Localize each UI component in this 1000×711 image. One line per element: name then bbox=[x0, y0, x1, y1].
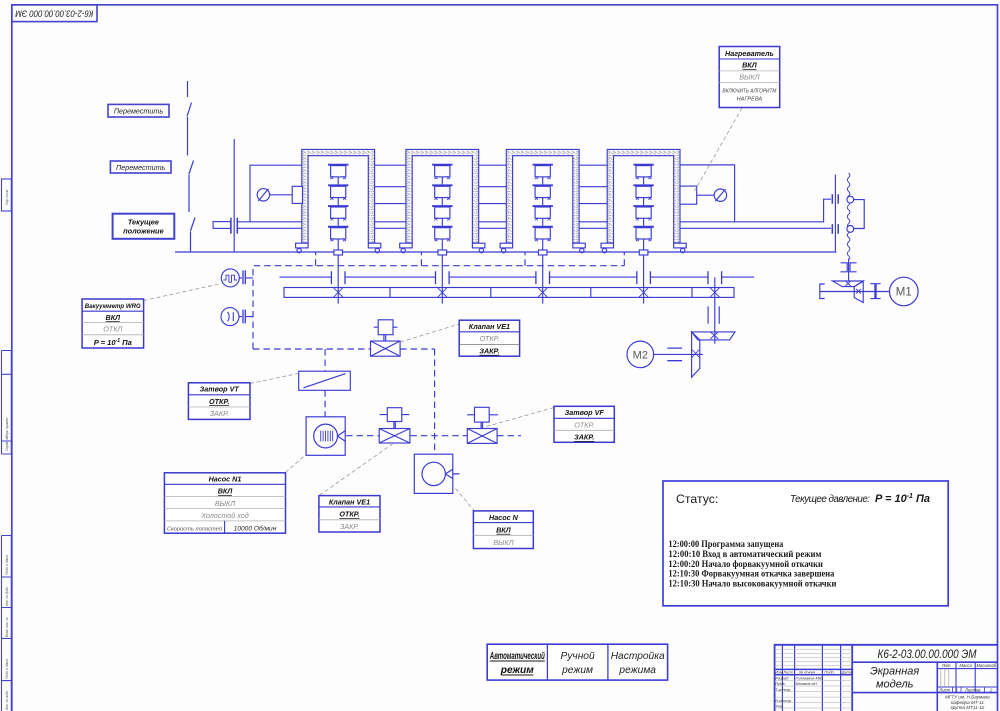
svg-text:Переместить: Переместить bbox=[116, 163, 166, 172]
svg-text:ВЫКЛ: ВЫКЛ bbox=[493, 538, 513, 547]
turbo pump N1 bbox=[306, 417, 345, 456]
contact switch chain bbox=[187, 81, 195, 252]
svg-text:ОТКР.: ОТКР. bbox=[339, 510, 359, 519]
flanged pipe header line bbox=[280, 276, 755, 278]
svg-text:Инв. № подл.: Инв. № подл. bbox=[5, 690, 9, 710]
svg-text:М2: М2 bbox=[633, 350, 648, 362]
svg-text:ОТКР.: ОТКР. bbox=[479, 334, 499, 343]
right lower flange bars bbox=[832, 224, 838, 234]
drive shaft to M1 bbox=[848, 259, 850, 282]
feedthrough bracket bbox=[854, 200, 864, 229]
svg-text:ОТКР.: ОТКР. bbox=[574, 420, 594, 429]
svg-text:Масштаб: Масштаб bbox=[977, 663, 997, 668]
valve VE1 lower bbox=[379, 408, 410, 443]
svg-text:ВКЛ: ВКЛ bbox=[496, 525, 512, 534]
branch VT to turbo pump bbox=[324, 390, 326, 417]
title block bbox=[775, 645, 998, 711]
furnace chamber 2 bbox=[400, 149, 485, 252]
svg-text:Клапан VE1: Клапан VE1 bbox=[469, 322, 510, 331]
label box Переместить 2 bbox=[110, 161, 171, 173]
M2 drive shaft bbox=[654, 353, 703, 355]
foreline turbo to VE1 valve bbox=[346, 435, 379, 437]
svg-text:12:00:10 Вход в автоматический: 12:00:10 Вход в автоматический режим bbox=[668, 549, 821, 559]
mid rail segments lower bbox=[375, 203, 608, 205]
line valve VE1 to junction bbox=[400, 348, 435, 350]
manifold duct rectangle bbox=[284, 288, 734, 298]
stem connector box 3 bbox=[538, 250, 547, 255]
svg-text:Текущее давление:: Текущее давление: bbox=[790, 494, 870, 505]
info table Нагреватель bbox=[719, 47, 780, 108]
svg-text:М1: М1 bbox=[896, 287, 912, 299]
chamber stem 1 bbox=[337, 239, 339, 304]
furnace chamber 1 bbox=[296, 149, 381, 252]
svg-text:ВКЛ: ВКЛ bbox=[106, 313, 122, 322]
svg-text:Разраб.: Разраб. bbox=[775, 676, 789, 681]
left shaft flange bars bbox=[231, 218, 237, 234]
pin circle lower bbox=[847, 226, 854, 233]
svg-text:12:00:00 Программа запущена: 12:00:00 Программа запущена bbox=[668, 539, 783, 549]
svg-text:Статус:: Статус: bbox=[676, 492, 718, 506]
worm gear M2 horizontal trapezoid bbox=[692, 332, 735, 340]
valve VE1 upper bbox=[371, 320, 401, 356]
svg-text:ЗАКР.: ЗАКР. bbox=[479, 347, 499, 356]
svg-text:режима: режима bbox=[618, 665, 656, 676]
svg-text:Пров.: Пров. bbox=[775, 681, 785, 686]
leader lines to labels bbox=[144, 108, 742, 511]
right port box bbox=[680, 186, 697, 204]
svg-text:Экранная: Экранная bbox=[870, 665, 919, 677]
svg-text:Масса: Масса bbox=[959, 663, 972, 668]
pin circle upper bbox=[847, 196, 854, 203]
branch to gate valve VT bbox=[324, 349, 326, 371]
duct valve X marks bbox=[334, 288, 720, 297]
svg-text:ВЫКЛ: ВЫКЛ bbox=[739, 72, 759, 81]
svg-text:Вакуумметр WRG: Вакуумметр WRG bbox=[85, 303, 142, 310]
svg-text:модель: модель bbox=[876, 679, 914, 691]
svg-text:ВКЛЮЧИТЬ АЛГОРИТМ: ВКЛЮЧИТЬ АЛГОРИТМ bbox=[722, 89, 776, 95]
svg-text:К6-2-03.00.00.000 ЭМ: К6-2-03.00.00.000 ЭМ bbox=[878, 649, 977, 661]
svg-text:Беляков АН: Беляков АН bbox=[796, 681, 818, 686]
svg-text:Подп. и дата: Подп. и дата bbox=[5, 555, 9, 575]
furnace chamber 3 bbox=[500, 149, 585, 252]
svg-text:1: 1 bbox=[990, 687, 992, 692]
shaft upper line bbox=[237, 199, 831, 222]
svg-text:ВЫКЛ: ВЫКЛ bbox=[215, 499, 235, 508]
info table Затвор VF bbox=[554, 406, 614, 442]
svg-text:Справ. №: Справ. № bbox=[5, 436, 9, 451]
svg-text:Текущее: Текущее bbox=[128, 218, 159, 227]
svg-text:Листов: Листов bbox=[964, 687, 981, 692]
chamber stem 4 bbox=[643, 239, 645, 304]
info table Клапан VE1 upper bbox=[459, 320, 519, 356]
svg-text:Инв. № дубл.: Инв. № дубл. bbox=[5, 586, 9, 606]
svg-text:К6-2-03.00.00.000 ЭМ: К6-2-03.00.00.000 ЭМ bbox=[15, 8, 93, 19]
stem connector box 1 bbox=[334, 250, 343, 255]
pipe flange ticks bbox=[331, 271, 721, 284]
svg-text:Перв. примен.: Перв. примен. bbox=[5, 417, 9, 438]
worm gear M2 vertical trapezoid bbox=[692, 332, 700, 377]
right upper flange bars bbox=[832, 194, 838, 204]
junction down to scroll pump bbox=[434, 349, 436, 454]
svg-text:Лит.: Лит. bbox=[941, 663, 952, 668]
svg-text:НАГРЕВА: НАГРЕВА bbox=[737, 97, 763, 103]
foreline VE1 valve to VF valve bbox=[410, 435, 467, 437]
svg-text:Лист: Лист bbox=[938, 687, 950, 692]
svg-text:12:10:30 Начало высоковакуумно: 12:10:30 Начало высоковакуумной откачки bbox=[668, 579, 837, 589]
svg-text:Клапан VE1: Клапан VE1 bbox=[329, 497, 370, 506]
svg-text:ЗАКР.: ЗАКР. bbox=[574, 433, 594, 442]
left support column bbox=[233, 139, 235, 252]
svg-text:режим: режим bbox=[500, 665, 534, 676]
info table Затвор VT bbox=[188, 383, 250, 420]
stem connector box 4 bbox=[639, 250, 648, 255]
M1 motor shaft bbox=[820, 291, 890, 293]
svg-text:Лист: Лист bbox=[782, 670, 794, 675]
info table Насос N1 bbox=[164, 473, 285, 533]
svg-text:ОТКЛ: ОТКЛ bbox=[103, 325, 122, 334]
svg-text:Спр. точн.: Спр. точн. bbox=[5, 189, 9, 205]
label box Текущее положение bbox=[113, 214, 175, 239]
svg-text:положение: положение bbox=[123, 227, 164, 236]
chamber stem 2 bbox=[441, 239, 443, 304]
mode selector table bbox=[487, 644, 667, 680]
svg-text:Изм: Изм bbox=[775, 670, 783, 675]
M1 shaft flange left bbox=[820, 284, 825, 299]
svg-text:12:00:20 Начало форвакуумной о: 12:00:20 Начало форвакуумной откачки bbox=[668, 559, 823, 569]
stem connector box 2 bbox=[438, 250, 447, 255]
svg-text:Автоматический: Автоматический bbox=[489, 651, 545, 662]
svg-text:Затвор VF: Затвор VF bbox=[565, 408, 605, 417]
motor M2 bbox=[627, 341, 654, 368]
svg-text:ЗАКР.: ЗАКР. bbox=[210, 409, 229, 418]
left port box bbox=[292, 186, 302, 203]
svg-text:Затвор VT: Затвор VT bbox=[200, 385, 240, 394]
top rail segments bbox=[375, 164, 735, 166]
left margin attribute boxes bbox=[2, 179, 12, 711]
svg-text:Дата: Дата bbox=[841, 670, 853, 675]
label box Переместить 1 bbox=[108, 104, 169, 117]
left diameter symbol bbox=[257, 189, 269, 201]
svg-text:ОТКР.: ОТКР. bbox=[209, 397, 229, 406]
svg-text:Утв.: Утв. bbox=[775, 703, 784, 708]
svg-text:1: 1 bbox=[956, 687, 958, 692]
svg-text:10000 Об/мин: 10000 Об/мин bbox=[234, 524, 277, 532]
svg-text:Насос N: Насос N bbox=[489, 513, 519, 522]
svg-text:Взам. инв. №: Взам. инв. № bbox=[5, 617, 9, 637]
roughing stem sleeve bars bbox=[708, 306, 719, 323]
status panel bbox=[663, 481, 948, 606]
underline marks for active states bbox=[106, 69, 757, 675]
top-left rotated stamp box bbox=[12, 5, 97, 22]
svg-text:Н.контр.: Н.контр. bbox=[775, 698, 791, 703]
roughing stem to M2 worm bbox=[714, 277, 716, 344]
vacuum gauge WRG bbox=[221, 269, 253, 287]
right enclosure outline bbox=[680, 165, 735, 222]
info table Насос N2 bbox=[473, 511, 533, 549]
svg-text:ВКЛ: ВКЛ bbox=[742, 61, 758, 70]
svg-text:Нагреватель: Нагреватель bbox=[725, 49, 774, 58]
chamber stem 3 bbox=[542, 239, 544, 304]
svg-text:Голованов МЮ: Голованов МЮ bbox=[796, 676, 823, 681]
worm gear M1 horizontal trapezoid bbox=[833, 281, 864, 287]
M1 shaft flange pair bbox=[870, 284, 880, 299]
bellows zigzag line bbox=[847, 173, 850, 259]
furnace chamber 4 bbox=[601, 149, 686, 252]
svg-text:Холостой ход: Холостой ход bbox=[200, 511, 249, 520]
scroll pump N2 bbox=[414, 454, 459, 493]
gate valve VT bbox=[299, 371, 351, 390]
valve VF bbox=[467, 407, 498, 443]
left enclosure outline bbox=[250, 165, 302, 221]
svg-text:Насос N1: Насос N1 bbox=[209, 474, 242, 483]
svg-text:режим: режим bbox=[561, 665, 593, 676]
svg-text:P = 10-1 Па: P = 10-1 Па bbox=[875, 493, 930, 505]
svg-text:Переместить: Переместить bbox=[114, 106, 164, 115]
svg-text:Подп.: Подп. bbox=[824, 670, 834, 675]
svg-text:ВКЛ: ВКЛ bbox=[218, 487, 234, 496]
title block small labels bbox=[938, 663, 996, 710]
right diameter symbol bbox=[714, 189, 726, 201]
foreline from gauges to valve VE1 bbox=[253, 348, 371, 350]
svg-text:ЗАКР.: ЗАКР. bbox=[340, 522, 359, 531]
svg-text:группа МТ11-12: группа МТ11-12 bbox=[950, 705, 984, 710]
svg-text:12:10:30 Форвакуумная откачка: 12:10:30 Форвакуумная откачка завершена bbox=[668, 569, 834, 579]
svg-text:№ докум.: № докум. bbox=[799, 670, 816, 675]
duct segment dividers bbox=[390, 288, 692, 298]
chamber pump-out risers bbox=[316, 252, 625, 266]
foreline VF valve vent end bbox=[497, 435, 521, 437]
svg-text:Т.контр.: Т.контр. bbox=[775, 687, 791, 692]
M2 coupling lines bbox=[667, 348, 682, 361]
svg-text:Скорость лопастей: Скорость лопастей bbox=[167, 525, 223, 532]
vacuum manifold dashed header bbox=[253, 252, 624, 454]
mid rail segments upper bbox=[375, 186, 608, 188]
info table Клапан VE1 lower bbox=[319, 496, 380, 532]
motor M1 bbox=[890, 277, 919, 306]
right end support column bbox=[834, 175, 836, 253]
worm gear M1 vertical trapezoid bbox=[854, 281, 863, 302]
svg-text:Подп. и дата: Подп. и дата bbox=[5, 659, 9, 679]
baseline rail bbox=[175, 251, 836, 253]
shaft lower line bbox=[237, 227, 831, 229]
coupling brackets bbox=[841, 263, 857, 272]
vacuum gauge 2 bbox=[221, 308, 253, 326]
svg-text:Настройка: Настройка bbox=[611, 651, 665, 662]
left shaft stub bbox=[213, 222, 231, 229]
svg-text:Ручной: Ручной bbox=[561, 651, 595, 662]
svg-text:P = 10-1 Па: P = 10-1 Па bbox=[94, 338, 132, 347]
info table Вакуумметр WRG bbox=[82, 299, 144, 348]
